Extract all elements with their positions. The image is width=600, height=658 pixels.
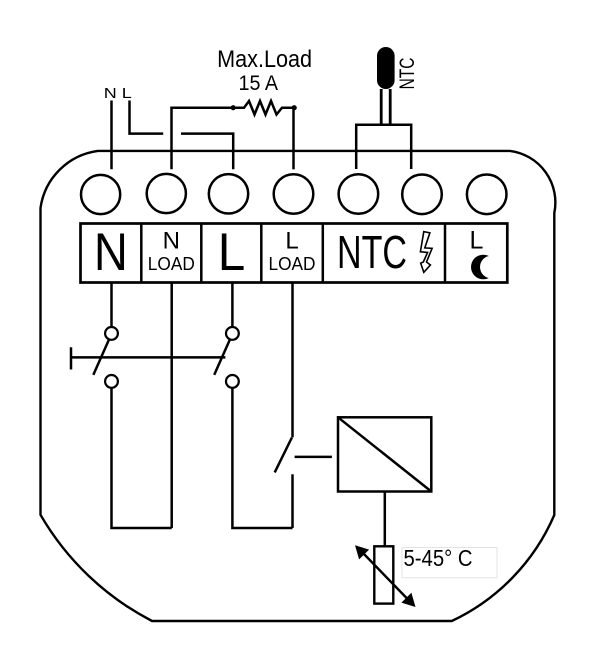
switch 2 top contact bbox=[226, 327, 239, 340]
adjustment arrow line bbox=[362, 552, 409, 601]
terminal circle 7 bbox=[467, 175, 507, 215]
wire: L LOAD riser bbox=[291, 283, 294, 438]
svg-text:NTC: NTC bbox=[337, 226, 407, 278]
svg-text:5-45° C: 5-45° C bbox=[404, 545, 473, 571]
wire: L feed bbox=[130, 101, 164, 134]
switch 1 bottom contact bbox=[105, 375, 118, 388]
arrow head upper bbox=[355, 545, 369, 559]
regulator box bbox=[338, 417, 431, 491]
junction dot left bbox=[231, 105, 236, 110]
device outline bbox=[41, 151, 556, 621]
switch 2 blade bbox=[214, 340, 230, 375]
wire: resistor to L LOAD terminal bbox=[292, 108, 295, 170]
terminal strip box bbox=[81, 224, 508, 283]
arrow head lower bbox=[401, 593, 415, 607]
svg-text:Max.Load: Max.Load bbox=[217, 46, 312, 73]
wire: N terminal down bbox=[110, 283, 113, 328]
mechanical link to regulator bbox=[295, 456, 332, 459]
actuator bar end bbox=[70, 347, 73, 369]
wire: switch2 to U bottom bbox=[232, 388, 292, 528]
divider 2 bbox=[200, 224, 203, 283]
svg-text:LOAD: LOAD bbox=[269, 254, 316, 274]
wire: N feed bbox=[110, 101, 113, 170]
svg-text:15 A: 15 A bbox=[239, 72, 279, 95]
lightning bolt icon bbox=[420, 232, 432, 273]
actuator line bbox=[71, 356, 225, 359]
terminal circle 6 bbox=[402, 175, 442, 215]
wire: switch 3 lower lead bbox=[291, 474, 294, 528]
svg-text:NTC: NTC bbox=[396, 58, 419, 90]
divider 1 bbox=[140, 224, 143, 283]
junction dot right bbox=[292, 105, 297, 110]
wire: regulator to potentiometer bbox=[384, 492, 387, 547]
svg-text:L: L bbox=[285, 227, 298, 254]
terminal circle 3 bbox=[209, 174, 248, 213]
switch 3 blade bbox=[275, 438, 292, 473]
terminal circle 5 bbox=[339, 174, 379, 214]
svg-text:N: N bbox=[163, 227, 180, 254]
divider 3 bbox=[260, 224, 263, 283]
regulator diagonal bbox=[338, 417, 431, 491]
wire: L terminal down bbox=[231, 283, 234, 328]
terminal circle 2 bbox=[147, 174, 186, 213]
switch 1 top contact bbox=[105, 327, 118, 340]
divider 4 bbox=[322, 224, 325, 283]
wire: NTC bracket to terminals bbox=[356, 125, 411, 169]
svg-text:L: L bbox=[218, 223, 246, 282]
wire: N LOAD riser bbox=[170, 283, 173, 529]
NTC probe leads bbox=[380, 89, 383, 125]
switch 1 blade bbox=[93, 340, 109, 375]
terminal circle 1 bbox=[81, 175, 120, 214]
switch 2 bottom contact bbox=[226, 375, 239, 388]
svg-text:N: N bbox=[94, 223, 128, 282]
wire: L feed continuation to terminal L bbox=[181, 134, 233, 170]
svg-text:N L: N L bbox=[104, 85, 132, 102]
svg-text:L: L bbox=[470, 226, 484, 254]
NTC probe body bbox=[377, 47, 395, 89]
wire: switch1 to U bottom bbox=[112, 388, 172, 528]
resistor (load) bbox=[233, 101, 294, 115]
terminal circle 4 bbox=[274, 174, 314, 214]
svg-text:LOAD: LOAD bbox=[148, 254, 195, 274]
divider 5 bbox=[444, 224, 447, 283]
potentiometer body bbox=[374, 546, 393, 603]
label box 5-45 C bbox=[402, 548, 497, 578]
moon icon bbox=[471, 255, 496, 280]
wire: N LOAD riser to resistor bbox=[172, 108, 234, 170]
